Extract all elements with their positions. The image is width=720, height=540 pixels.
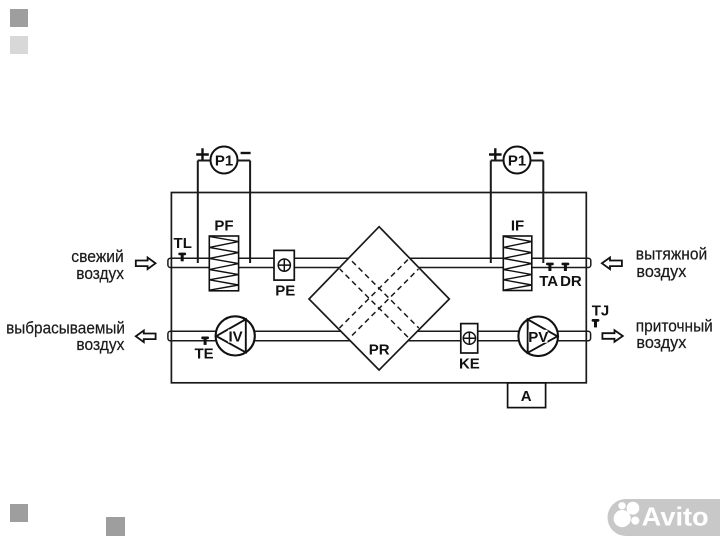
svg-text:воздух: воздух	[76, 335, 124, 354]
svg-text:воздух: воздух	[636, 333, 686, 352]
svg-text:IF: IF	[511, 218, 524, 235]
svg-text:P1: P1	[508, 153, 526, 170]
svg-text:вытяжной: вытяжной	[636, 245, 707, 264]
svg-text:TL: TL	[174, 235, 192, 252]
svg-text:TE: TE	[195, 345, 214, 362]
svg-text:PR: PR	[369, 342, 390, 359]
svg-text:TA: TA	[539, 273, 558, 290]
svg-text:PF: PF	[214, 218, 233, 235]
svg-text:IV: IV	[229, 329, 243, 346]
svg-text:PE: PE	[275, 283, 295, 300]
svg-text:PV: PV	[528, 329, 548, 346]
svg-text:DR: DR	[560, 273, 582, 290]
svg-text:A: A	[521, 388, 532, 405]
svg-text:TJ: TJ	[592, 302, 610, 319]
svg-text:KE: KE	[459, 355, 480, 372]
svg-text:Avito: Avito	[642, 501, 709, 531]
svg-text:P1: P1	[215, 153, 233, 170]
svg-text:воздух: воздух	[76, 264, 124, 283]
svg-text:воздух: воздух	[636, 262, 686, 281]
